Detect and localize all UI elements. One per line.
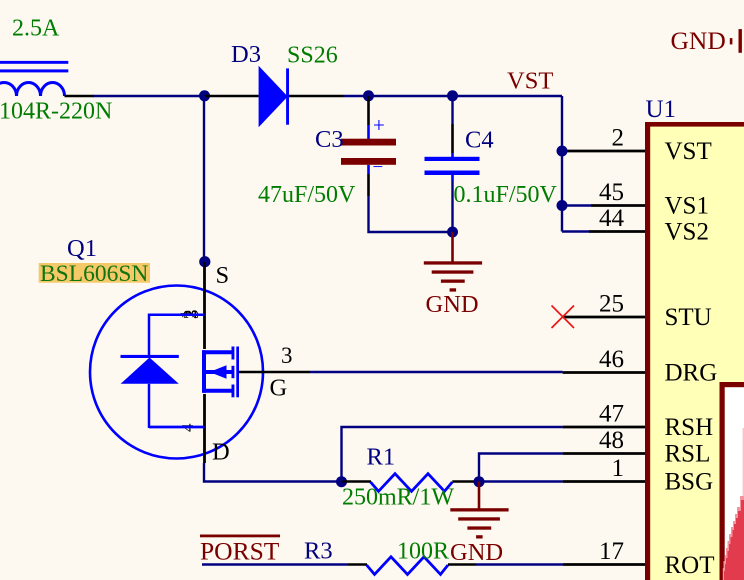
svg-text:SS26: SS26 bbox=[287, 43, 338, 69]
power port GND bar bbox=[739, 29, 742, 53]
net label PORST overbar bbox=[200, 535, 280, 538]
svg-text:−: − bbox=[373, 157, 384, 178]
GND node junction dot bbox=[447, 227, 458, 238]
diode D3 cathode pin bbox=[289, 95, 344, 98]
inductor L1 coil bbox=[0, 83, 64, 97]
wire: C3 bottom to GND rail bbox=[369, 196, 453, 232]
diode D3 triangle bbox=[259, 66, 288, 128]
capacitor C4 top stub bbox=[451, 153, 454, 158]
svg-text:Q1: Q1 bbox=[67, 235, 97, 262]
svg-text:17: 17 bbox=[599, 538, 624, 565]
mosfet bulk arrow bbox=[210, 365, 227, 378]
svg-text:46: 46 bbox=[599, 346, 624, 373]
svg-text:GND: GND bbox=[426, 291, 479, 318]
wire: inductor to node A bbox=[93, 95, 205, 97]
svg-text:DRG: DRG bbox=[665, 360, 718, 387]
capacitor C3 plate top bbox=[341, 139, 396, 146]
svg-text:R1: R1 bbox=[367, 444, 396, 471]
svg-text:RSL: RSL bbox=[665, 441, 711, 468]
capacitor C3 top pin bbox=[367, 96, 370, 125]
pin 44 wire stub bbox=[562, 230, 589, 232]
body diode bottom link bbox=[149, 426, 205, 429]
svg-text:BSG: BSG bbox=[665, 469, 714, 496]
svg-text:2: 2 bbox=[612, 125, 625, 152]
svg-text:RSH: RSH bbox=[665, 414, 714, 441]
wire: node A down to Q1 source bbox=[203, 96, 205, 262]
inductor right pin bbox=[65, 95, 95, 98]
svg-text:100R: 100R bbox=[397, 539, 449, 565]
capacitor C3 plate bottom bbox=[341, 158, 396, 165]
value highlight box bbox=[39, 263, 150, 283]
Q1 stacked source pin numbers (rotated) bbox=[177, 310, 203, 320]
transistor Q1 drain pin bbox=[203, 394, 206, 463]
svg-text:1: 1 bbox=[612, 455, 625, 482]
mosfet channel bar middle bbox=[232, 366, 235, 378]
node C junction dot (C4 tap) bbox=[447, 90, 458, 101]
IC U1 body bbox=[645, 122, 744, 580]
svg-text:VST: VST bbox=[507, 68, 553, 95]
pin 2 line bbox=[562, 150, 645, 153]
pin 45 line bbox=[591, 204, 645, 207]
capacitor C3 bottom stub bbox=[367, 165, 370, 174]
svg-text:STU: STU bbox=[665, 304, 712, 331]
node D junction dot bbox=[336, 476, 347, 487]
svg-text:48: 48 bbox=[599, 427, 624, 454]
svg-text:U1: U1 bbox=[646, 96, 677, 123]
diode D3 anode pin bbox=[205, 95, 259, 98]
mosfet bulk stub bbox=[204, 370, 232, 374]
resistor R1 right pin bbox=[452, 480, 479, 483]
body diode triangle bbox=[121, 358, 179, 384]
pin 17 line bbox=[563, 563, 645, 566]
svg-text:VS2: VS2 bbox=[665, 219, 709, 246]
pin 47 line bbox=[563, 426, 645, 429]
body diode cathode bar bbox=[121, 355, 179, 358]
node S junction dot bbox=[199, 256, 210, 267]
transistor Q1 gate pin bbox=[239, 371, 310, 374]
svg-text:S: S bbox=[216, 262, 230, 289]
pin 44 line bbox=[589, 230, 645, 233]
resistor R1 zigzag bbox=[371, 474, 453, 492]
wire: PORST to R3 bbox=[202, 563, 348, 565]
transistor Q1 body circle bbox=[90, 286, 263, 459]
wire: node E up to pin 48 bbox=[479, 454, 563, 482]
wire: node D up to pin 47 bbox=[342, 427, 563, 482]
pin 1 line bbox=[563, 480, 645, 483]
svg-text:D: D bbox=[212, 439, 230, 466]
svg-text:3: 3 bbox=[281, 343, 293, 368]
mosfet gate bar bbox=[236, 347, 239, 398]
svg-text:ROT: ROT bbox=[665, 552, 715, 579]
svg-text:+: + bbox=[373, 113, 385, 137]
pin 25 line bbox=[563, 316, 645, 319]
svg-text:104R-220N: 104R-220N bbox=[0, 99, 112, 125]
resistor R3 left pin bbox=[348, 563, 367, 566]
wire: VST vertical drop bbox=[561, 96, 563, 232]
body diode top link bbox=[149, 313, 205, 316]
mosfet left connector bbox=[202, 350, 206, 393]
mosfet source stub bbox=[203, 350, 232, 354]
pin 48 line bbox=[563, 452, 645, 455]
pin 45 junction dot bbox=[557, 200, 568, 211]
node E junction dot bbox=[474, 476, 485, 487]
right-edge chart fringe bbox=[743, 428, 744, 498]
pin 2 junction dot bbox=[557, 146, 568, 157]
svg-text:PORST: PORST bbox=[200, 537, 280, 566]
capacitor C4 plate bottom bbox=[425, 171, 480, 176]
ground symbol GND1 stem bbox=[451, 232, 454, 262]
ground symbol GND2 stem bbox=[478, 482, 481, 509]
wire: drain down and right bbox=[204, 463, 342, 482]
svg-text:C3: C3 bbox=[315, 126, 344, 153]
wire: R3 to pin 17 bbox=[476, 563, 563, 565]
mosfet drain stub bbox=[203, 389, 232, 393]
svg-text:44: 44 bbox=[599, 205, 625, 232]
svg-text:BSL606SN: BSL606SN bbox=[40, 261, 148, 287]
svg-text:VST: VST bbox=[665, 138, 712, 165]
ground symbol GND2 bars bbox=[450, 508, 508, 538]
resistor R1 left pin bbox=[342, 480, 372, 483]
svg-text:GND: GND bbox=[450, 539, 503, 566]
svg-text:2.5A: 2.5A bbox=[12, 16, 60, 42]
svg-text:D3: D3 bbox=[231, 41, 261, 68]
diode D3 cathode bar bbox=[286, 68, 289, 124]
wire: gate to pin 46 bbox=[310, 371, 563, 373]
node B junction dot (C3 tap) bbox=[363, 90, 374, 101]
svg-text:G: G bbox=[270, 375, 288, 402]
mosfet channel bar bottom bbox=[232, 385, 235, 398]
capacitor C4 top wire bbox=[451, 96, 453, 124]
svg-text:C4: C4 bbox=[465, 127, 494, 154]
capacitor C4 plate top bbox=[425, 157, 480, 161]
svg-text:47: 47 bbox=[599, 401, 624, 428]
capacitor C4 bottom stub bbox=[451, 175, 454, 181]
capacitor C3 top stub bbox=[367, 125, 370, 139]
node A junction dot bbox=[199, 90, 210, 101]
svg-text:VS1: VS1 bbox=[665, 193, 709, 220]
body diode vertical bottom bbox=[148, 384, 151, 428]
svg-text:R3: R3 bbox=[304, 538, 333, 565]
pin 46 line bbox=[563, 371, 645, 374]
transistor Q1 source pin bbox=[203, 262, 206, 349]
inductor L1 core lines bbox=[0, 61, 68, 73]
capacitor C4 top pin bbox=[451, 124, 454, 153]
ground symbol GND1 bars bbox=[424, 261, 482, 291]
svg-text:25: 25 bbox=[599, 291, 624, 318]
resistor R3 right pin bbox=[448, 563, 476, 566]
svg-text:0.1uF/50V: 0.1uF/50V bbox=[454, 182, 558, 208]
red histogram mountain bbox=[723, 496, 744, 580]
no-ERC cross at pin 25 bbox=[552, 306, 575, 329]
power port GND connector dash bbox=[730, 38, 733, 44]
body diode vertical top bbox=[148, 314, 151, 358]
wire: diode to VST corner bbox=[344, 95, 562, 97]
svg-text:250mR/1W: 250mR/1W bbox=[342, 485, 454, 511]
image frame (white box bottom right) bbox=[720, 382, 744, 580]
svg-text:47uF/50V: 47uF/50V bbox=[258, 182, 356, 208]
wire: C4 bottom to GND node bbox=[451, 181, 453, 232]
wire: node E right to pin 1 bbox=[479, 480, 563, 482]
capacitor C3 bottom pin bbox=[367, 174, 370, 196]
mosfet channel bar top bbox=[232, 347, 235, 360]
svg-text:GND: GND bbox=[671, 26, 726, 55]
svg-text:45: 45 bbox=[599, 179, 624, 206]
resistor R3 zigzag bbox=[367, 557, 448, 575]
pin 45 wire stub bbox=[562, 204, 591, 206]
